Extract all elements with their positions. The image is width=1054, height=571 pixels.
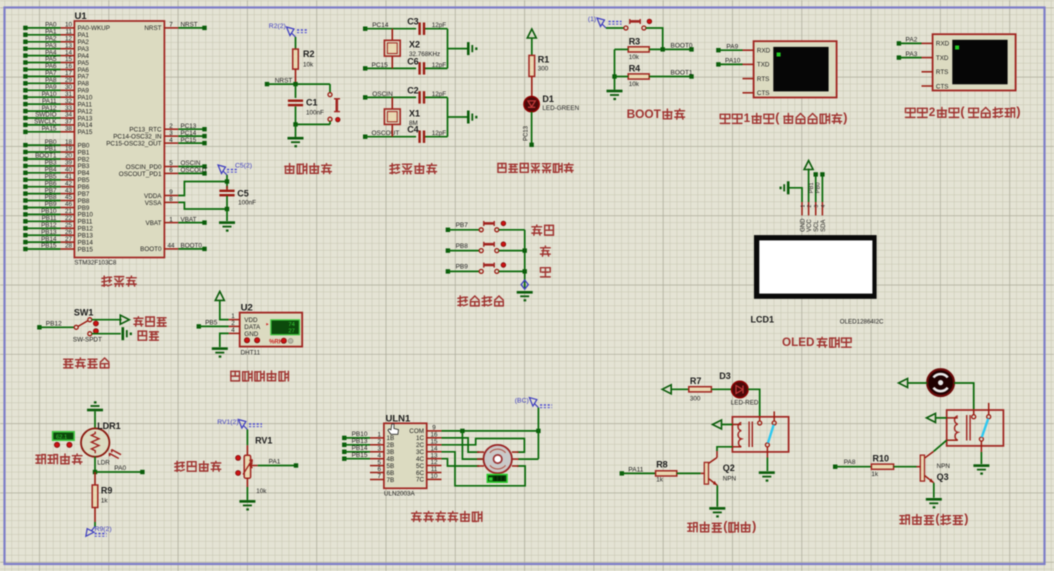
svg-text:RV1(2): RV1(2) [217,419,238,426]
svg-text:PB0: PB0 [816,182,822,193]
svg-text:PA3: PA3 [906,51,918,58]
svg-text:LCD1: LCD1 [751,315,775,325]
svg-text:PB15: PB15 [41,243,57,250]
svg-text:): ) [843,111,847,125]
svg-text:RXD: RXD [936,41,950,48]
svg-text:R7: R7 [690,376,702,386]
svg-text:ULN2003A: ULN2003A [384,491,416,498]
svg-text:(BC): (BC) [515,398,529,405]
svg-text:): ) [1016,105,1020,119]
svg-text:BOOT0: BOOT0 [671,43,693,50]
svg-text:OSCOUT: OSCOUT [181,167,208,174]
svg-text:PA8: PA8 [45,77,57,84]
svg-text:PC13: PC13 [523,125,529,141]
svg-text:7C: 7C [416,477,425,484]
svg-text:8M: 8M [409,120,418,127]
svg-text:OLED: OLED [782,336,814,349]
svg-text:PB1: PB1 [809,182,815,193]
svg-text:PC14-OSC32_IN: PC14-OSC32_IN [113,133,162,140]
svg-text:1: 1 [800,205,806,208]
svg-text:X2: X2 [409,40,420,50]
svg-text:C5(2): C5(2) [235,163,252,170]
svg-text:SDA: SDA [821,220,827,232]
svg-text:12pF: 12pF [432,130,447,137]
svg-text:PA15: PA15 [42,126,57,133]
svg-text:NRST: NRST [144,25,161,32]
svg-text:2: 2 [231,320,235,327]
svg-text:BOOT0: BOOT0 [140,246,162,253]
svg-text:OLED12864I2C: OLED12864I2C [840,319,884,326]
svg-text:VDDA: VDDA [144,193,162,200]
svg-text:19: 19 [65,146,73,153]
svg-text:PA11: PA11 [628,466,643,473]
svg-text:CTS: CTS [936,83,949,90]
svg-text:D1: D1 [542,94,554,104]
svg-text:R9(2): R9(2) [95,526,112,533]
svg-text:DHT11: DHT11 [241,349,261,356]
svg-text:R2(2): R2(2) [269,23,286,30]
svg-text:OSCIN_PD0: OSCIN_PD0 [126,164,162,171]
svg-text:2B: 2B [387,442,395,449]
svg-text:22: 22 [65,215,73,222]
svg-text:6: 6 [169,167,173,174]
svg-text:R1: R1 [538,55,550,65]
svg-text:PB8: PB8 [45,194,57,201]
svg-text:62.1: 62.1 [56,435,67,441]
svg-text:PB4: PB4 [78,170,90,177]
svg-text:PC14: PC14 [181,130,197,137]
svg-text:NPN: NPN [723,475,737,482]
svg-text:PB11: PB11 [42,215,57,222]
svg-text:PA2: PA2 [906,37,918,44]
svg-text:100nF: 100nF [238,200,256,207]
svg-text:7: 7 [377,473,381,480]
svg-text:PA1: PA1 [269,459,281,466]
svg-text:RV1: RV1 [255,436,272,446]
svg-text:RTS: RTS [757,76,769,83]
svg-text:R8: R8 [656,459,668,469]
svg-text:300: 300 [538,66,549,73]
svg-text:LED-GREEN: LED-GREEN [542,105,579,112]
svg-text:Q2: Q2 [723,463,735,473]
svg-text:29: 29 [65,77,73,84]
svg-text:TXD: TXD [757,62,770,69]
svg-text:10: 10 [430,473,438,480]
svg-text:PB13: PB13 [352,438,368,445]
svg-text:R10: R10 [873,454,890,464]
svg-text:PB7: PB7 [456,222,469,229]
svg-text:SW-SPDT: SW-SPDT [73,337,102,344]
svg-text:VBAT: VBAT [181,216,197,223]
svg-text:10k: 10k [256,488,267,495]
svg-text:7: 7 [169,22,173,29]
svg-text:BOOT1: BOOT1 [671,70,693,77]
svg-text:PA0: PA0 [114,465,126,472]
svg-text:6: 6 [377,466,381,473]
svg-text:CTS: CTS [757,90,770,97]
svg-text:X1: X1 [409,108,420,118]
svg-text:NRST: NRST [275,77,293,84]
svg-text:1C: 1C [416,435,425,442]
svg-text:PA8: PA8 [844,459,856,466]
svg-text:74: 74 [288,322,295,328]
svg-text:PB5: PB5 [205,320,218,327]
svg-text:PA1: PA1 [45,29,57,36]
svg-text:3: 3 [814,205,820,208]
svg-text:32: 32 [65,98,73,105]
svg-text:PB5: PB5 [45,173,57,180]
svg-text:28: 28 [65,243,73,250]
svg-text:PA11: PA11 [42,98,57,105]
svg-text:(1): (1) [588,16,596,23]
svg-text:11: 11 [65,29,72,36]
svg-text:PB15: PB15 [352,452,368,459]
svg-text:BOOT0: BOOT0 [181,243,203,250]
svg-text:16: 16 [430,432,438,439]
svg-text:32.768KHz: 32.768KHz [409,51,440,58]
svg-text:R3: R3 [629,37,641,47]
svg-text:PC15-OSC32_OUT: PC15-OSC32_OUT [106,140,161,147]
svg-text:D3: D3 [719,371,731,381]
svg-text:45: 45 [65,194,73,201]
svg-text:TXD: TXD [936,55,949,62]
svg-text:C5: C5 [237,189,249,199]
svg-text:RTS: RTS [936,69,948,76]
svg-text:LDR1: LDR1 [97,421,121,431]
svg-text:8: 8 [169,196,173,203]
svg-text:C2: C2 [407,85,419,95]
svg-text:PA1: PA1 [78,32,90,39]
svg-text:R2: R2 [303,49,315,59]
svg-text:PB15: PB15 [78,246,94,253]
svg-text:PA11: PA11 [78,101,93,108]
svg-text:GND: GND [800,218,806,232]
svg-text:NPN: NPN [937,463,951,470]
svg-text:100nF: 100nF [306,110,324,117]
svg-text:12: 12 [430,459,438,466]
svg-text:PB8: PB8 [78,198,90,205]
svg-text:DATA: DATA [244,324,261,331]
svg-text:PA8: PA8 [78,81,90,88]
svg-text:PA10: PA10 [725,58,741,65]
svg-text:PA15: PA15 [78,129,93,136]
svg-text:27: 27 [288,329,294,335]
svg-text:PB8: PB8 [456,243,469,250]
svg-text:VSSA: VSSA [145,200,163,207]
svg-text:38: 38 [65,126,73,133]
svg-text:3: 3 [169,130,173,137]
svg-text:PB1: PB1 [78,149,90,156]
svg-text:C1: C1 [306,98,318,108]
svg-text:4: 4 [169,137,173,144]
svg-text:44: 44 [167,243,175,250]
svg-text:VBAT: VBAT [146,220,162,227]
svg-text:2: 2 [377,439,381,446]
svg-text:Q3: Q3 [937,472,949,482]
svg-text:PA9: PA9 [726,43,738,50]
svg-text:5C: 5C [416,463,425,470]
svg-text:PB9: PB9 [456,264,469,271]
svg-text:LED-RED: LED-RED [731,400,759,407]
svg-text:SW1: SW1 [74,308,94,318]
svg-text:1: 1 [744,112,751,125]
svg-text:PB12: PB12 [46,320,62,327]
svg-text:2: 2 [929,106,936,119]
svg-text:12pF: 12pF [432,62,447,69]
svg-text:RXD: RXD [757,48,771,55]
svg-text:1k: 1k [871,471,879,478]
svg-text:41: 41 [65,173,73,180]
svg-text:PB1: PB1 [45,146,57,153]
svg-text:7B: 7B [387,477,395,484]
svg-text:15: 15 [65,56,73,63]
svg-text:12pF: 12pF [432,22,447,29]
svg-text:12pF: 12pF [432,91,447,98]
svg-text:4: 4 [821,205,827,208]
svg-text:STM32F103C8: STM32F103C8 [74,260,117,267]
svg-text:R9: R9 [101,486,113,496]
svg-text:LDR: LDR [97,460,110,467]
svg-text:PB11: PB11 [78,219,93,226]
svg-text:): ) [752,520,756,534]
svg-text:2: 2 [807,205,813,208]
svg-text:C3: C3 [407,17,419,27]
svg-text:PC15: PC15 [181,137,197,144]
svg-text:1k: 1k [101,498,109,505]
svg-text:BOOT: BOOT [627,107,662,121]
svg-text:PA14: PA14 [78,122,93,129]
svg-text:OSCOUT_PD1: OSCOUT_PD1 [119,171,162,178]
svg-text:VCC: VCC [807,219,813,232]
svg-text:1: 1 [169,216,173,223]
svg-text:SCL: SCL [814,220,820,232]
svg-text:): ) [964,512,968,526]
svg-text:10k: 10k [629,54,640,61]
svg-text:NRST: NRST [181,22,198,29]
svg-text:10k: 10k [303,62,314,69]
svg-text:U1: U1 [75,11,88,22]
svg-text:6B: 6B [387,470,395,477]
svg-text:10k: 10k [629,81,640,88]
svg-text:R4: R4 [629,64,641,74]
svg-text:4: 4 [231,327,235,334]
svg-text:GND: GND [244,331,258,338]
svg-text:PA5: PA5 [45,56,57,63]
svg-text:1k: 1k [656,476,664,483]
svg-text:PA5: PA5 [78,60,90,67]
svg-text:300: 300 [690,395,701,402]
